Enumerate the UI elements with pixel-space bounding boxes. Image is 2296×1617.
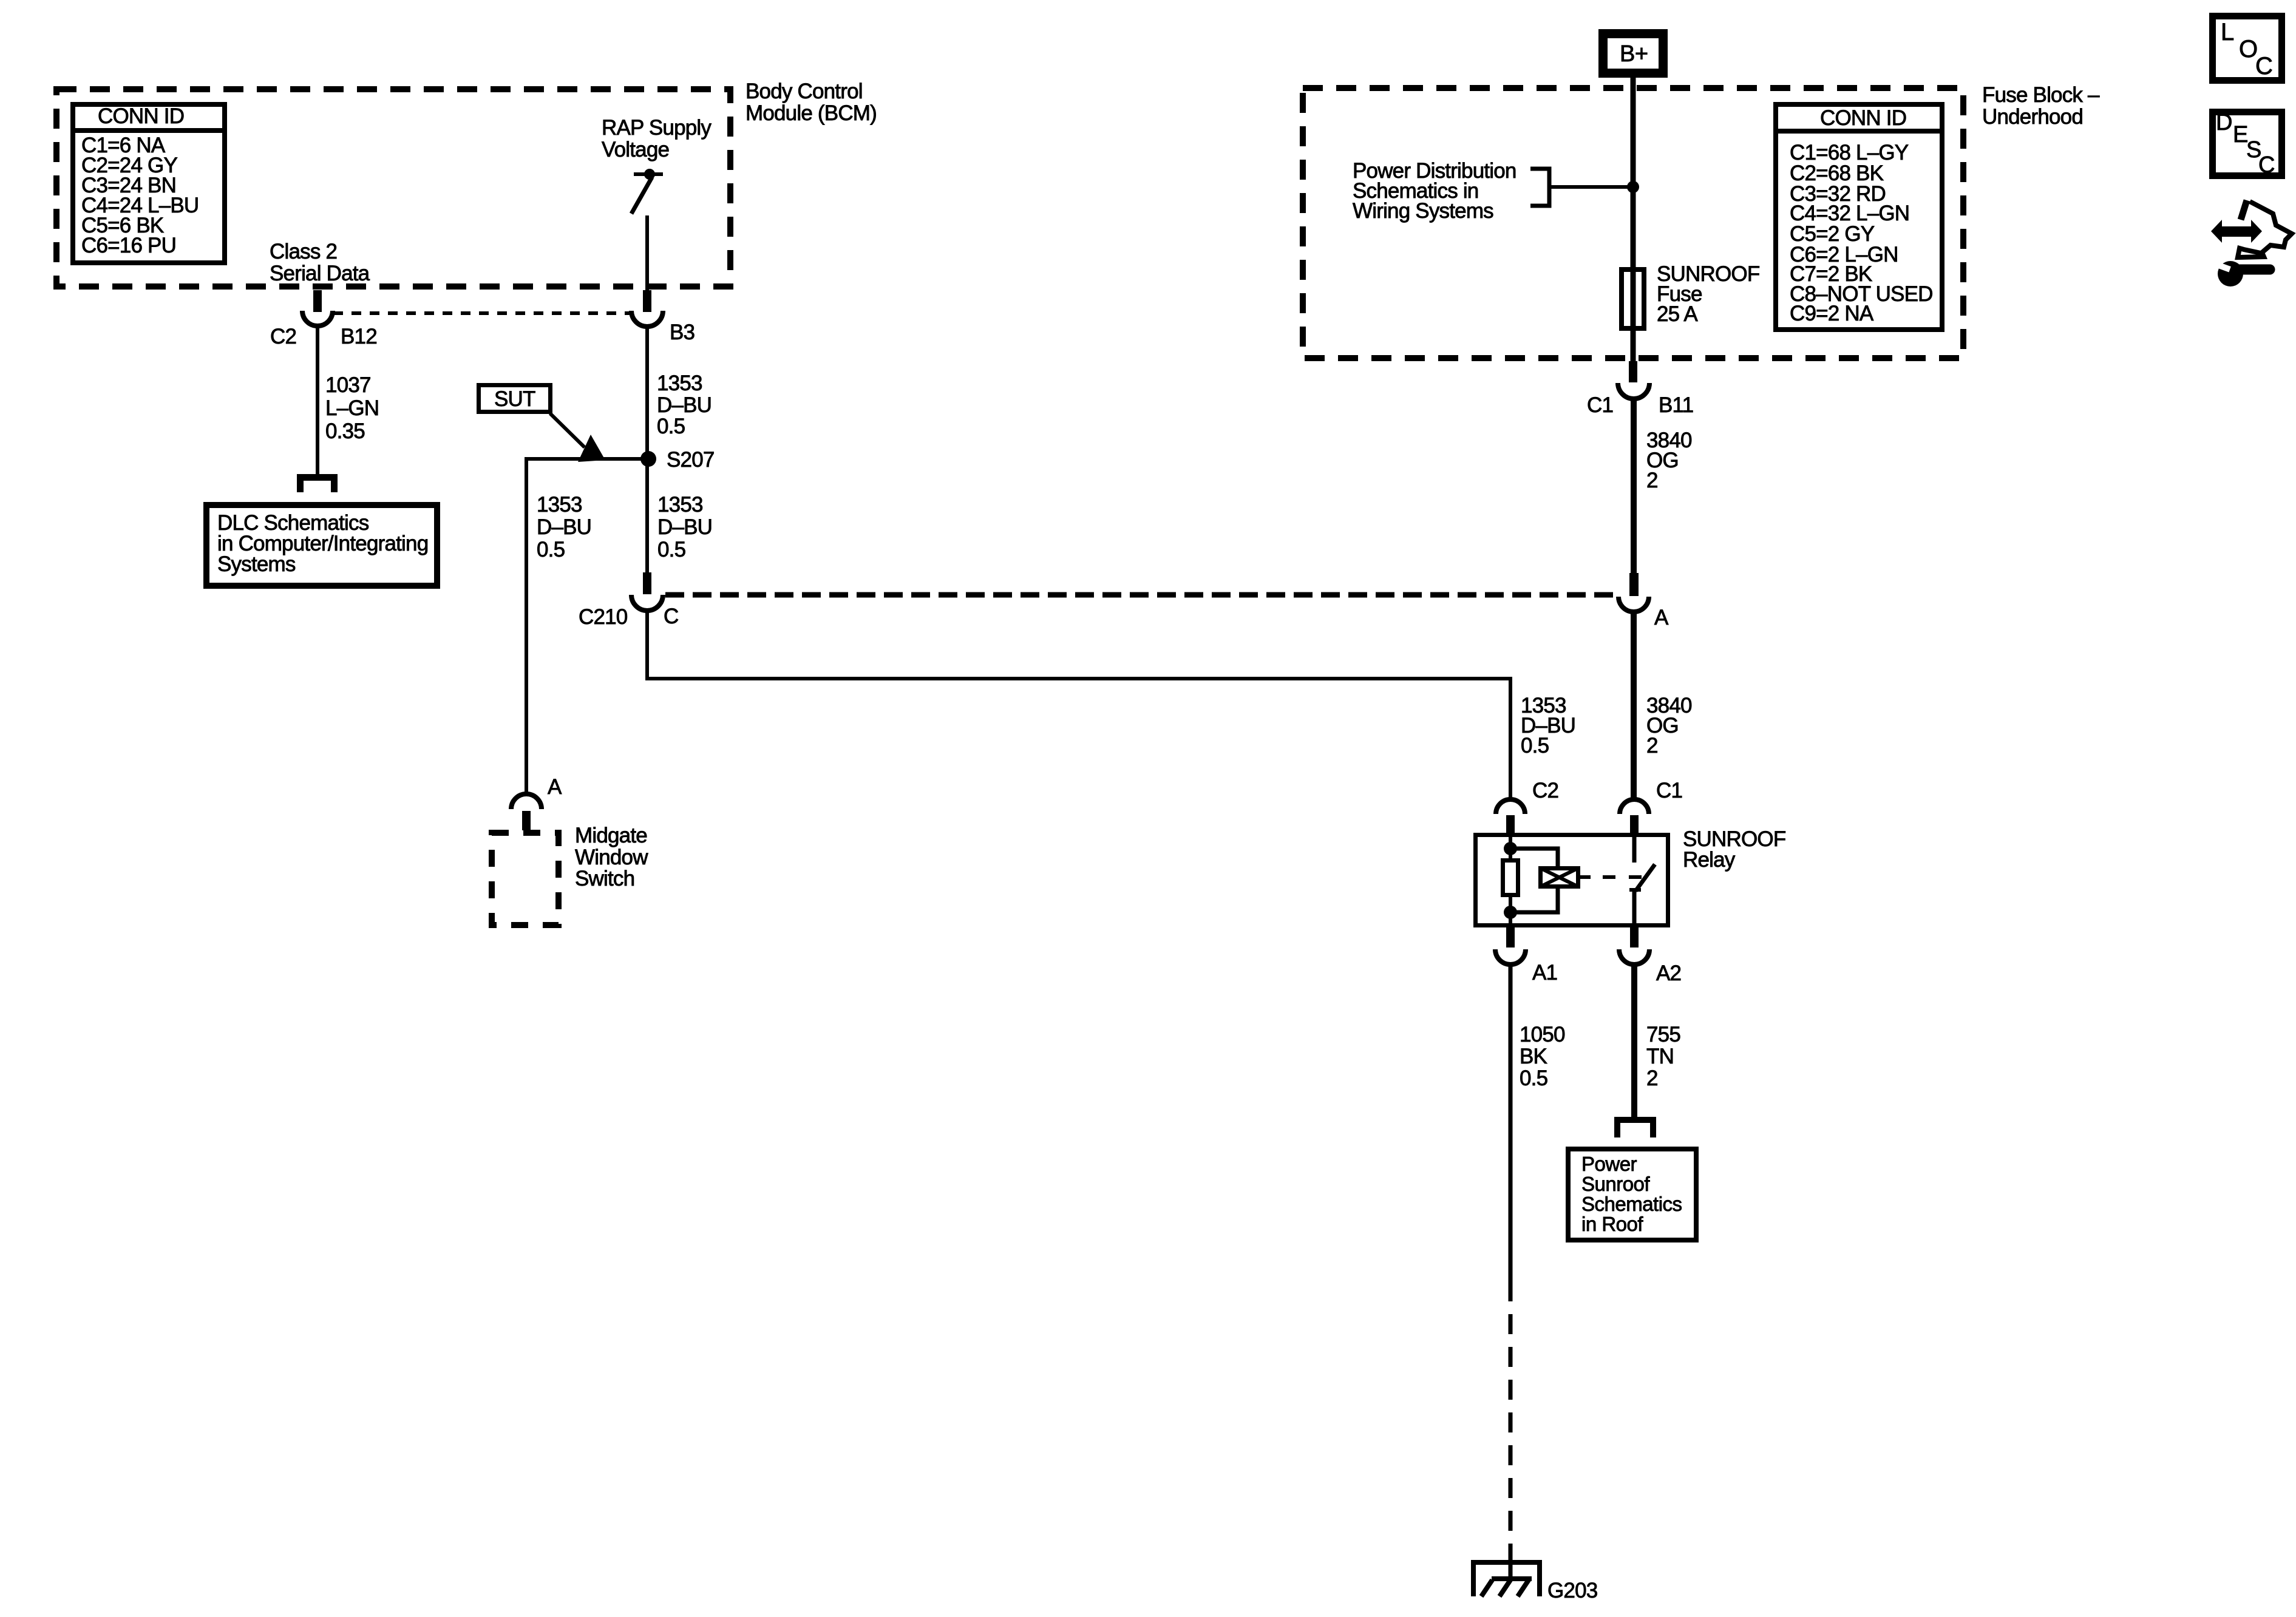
svg-text:1353: 1353 [657, 371, 702, 395]
junction dot coil top [1504, 842, 1517, 855]
svg-text:2: 2 [1646, 469, 1658, 492]
label Power Distribution Schematics in Wiring Systems [1353, 159, 1517, 223]
bracket into DLC box [301, 478, 335, 493]
svg-text:C: C [664, 605, 678, 628]
svg-text:G203: G203 [1547, 1579, 1597, 1602]
svg-text:SUT: SUT [494, 387, 535, 411]
svg-text:Body Control: Body Control [746, 80, 863, 103]
connector C210 pin C [631, 572, 663, 611]
BCM label [746, 80, 877, 125]
svg-text:in Roof: in Roof [1581, 1213, 1643, 1235]
svg-text:B3: B3 [670, 320, 695, 344]
svg-text:Underhood: Underhood [1982, 105, 2083, 129]
svg-text:B+: B+ [1620, 41, 1648, 67]
wire C210 down and across to relay C2 [645, 609, 1512, 799]
wire label 1353 D-BU 0.5 (right of S207) [657, 493, 712, 561]
svg-text:C: C [2255, 53, 2273, 80]
wire label 3840 OG 2 [1646, 429, 1692, 492]
svg-text:1353: 1353 [657, 493, 703, 517]
connector A (inline, right) [1618, 573, 1649, 612]
svg-text:S207: S207 [667, 448, 715, 472]
ground G203 [1473, 1562, 1540, 1596]
connector A2 relay pin [1619, 926, 1649, 964]
svg-text:C2: C2 [1532, 779, 1558, 802]
wire label 1050 BK 0.5 [1520, 1023, 1565, 1090]
svg-text:B11: B11 [1659, 393, 1693, 417]
svg-text:2: 2 [1646, 734, 1658, 758]
svg-text:Schematics: Schematics [1581, 1193, 1682, 1215]
svg-text:BK: BK [1520, 1045, 1547, 1068]
svg-text:Wiring Systems: Wiring Systems [1353, 199, 1493, 223]
connector C2 relay pin [1496, 799, 1525, 833]
module box BCM (dashed) [56, 89, 730, 286]
svg-text:A2: A2 [1656, 961, 1681, 985]
svg-text:B12: B12 [341, 325, 377, 348]
svg-text:RAP Supply: RAP Supply [602, 116, 712, 140]
connector A1 relay pin [1495, 926, 1526, 964]
svg-text:Systems: Systems [217, 552, 296, 576]
svg-text:Serial Data: Serial Data [270, 262, 370, 285]
svg-text:A1: A1 [1532, 961, 1557, 985]
label Midgate Window Switch [575, 824, 648, 890]
wire label 1353 D-BU 0.5 (above S207) [657, 371, 712, 438]
svg-text:25 A: 25 A [1657, 302, 1698, 326]
svg-text:C2: C2 [270, 325, 296, 348]
callout box SUT [479, 385, 551, 412]
node RAP Supply Voltage label [602, 116, 712, 161]
svg-text:Sunroof: Sunroof [1581, 1173, 1650, 1195]
relay SUNROOF box [1476, 835, 1668, 926]
wire B3 to S207 (1353 D-BU 0.5) [645, 325, 649, 572]
svg-text:C210: C210 [579, 605, 628, 629]
fuse block underhood (dashed box) [1303, 88, 1963, 358]
relay switch contact [1629, 833, 1655, 926]
svg-text:Fuse Block –: Fuse Block – [1982, 83, 2100, 107]
solenoid coil symbol (box with X) [1540, 868, 1591, 887]
wire label 755 TN 2 [1646, 1023, 1680, 1090]
icon LOC box [2213, 16, 2282, 81]
svg-text:L–GN: L–GN [325, 396, 379, 420]
svg-text:D–BU: D–BU [657, 393, 712, 417]
svg-text:Module (BCM): Module (BCM) [746, 101, 877, 125]
wire dashed pass-through C210 to A [665, 592, 1617, 598]
svg-text:CONN ID: CONN ID [1820, 106, 1906, 130]
svg-text:1353: 1353 [537, 493, 582, 517]
switch RAP supply (internal BCM output) [631, 169, 663, 214]
wire B+ feed down through fuse [1631, 77, 1636, 361]
svg-text:D: D [2216, 110, 2232, 135]
wire RAP switch to B3 [645, 215, 649, 290]
svg-text:Relay: Relay [1683, 848, 1736, 872]
svg-text:C: C [2258, 152, 2275, 178]
svg-text:D–BU: D–BU [537, 515, 591, 539]
connector C1/B11 pin [1618, 361, 1649, 399]
component Midgate Window Switch (dashed box) [492, 833, 559, 925]
label SUNROOF Relay [1683, 827, 1785, 872]
svg-text:L: L [2221, 19, 2234, 46]
splice S207 [640, 451, 656, 467]
wire A2 to power sunroof [1631, 964, 1637, 1120]
relay coil branch wires [1510, 833, 1558, 926]
wire dashed harness line C2 to B3 [333, 311, 631, 315]
wire tap to power distribution bracket [1550, 185, 1633, 189]
connector B3 pin [631, 290, 663, 327]
svg-text:2: 2 [1646, 1066, 1658, 1090]
svg-text:CONN ID: CONN ID [98, 104, 184, 128]
svg-text:Voltage: Voltage [602, 138, 669, 161]
svg-text:1037: 1037 [325, 373, 371, 397]
bracket power distribution [1530, 169, 1549, 206]
svg-text:Class 2: Class 2 [270, 240, 337, 263]
connector table CONN ID (fuse block) [1773, 104, 1944, 330]
svg-text:0.5: 0.5 [657, 538, 685, 561]
connector table CONN ID (BCM) [70, 104, 227, 263]
wire 3840 OG 2 (B11 to A) [1631, 398, 1637, 573]
resistor (relay coil suppression) [1503, 861, 1518, 895]
wire 1037 L-GN 0.35 [316, 325, 319, 475]
callout arrow to S207 [550, 413, 605, 462]
svg-text:D–BU: D–BU [657, 515, 712, 539]
wire label 1353 D-BU 0.5 (left branch) [537, 493, 591, 561]
icon DESC box [2213, 110, 2282, 178]
box DLC Schematics [206, 505, 437, 586]
svg-text:1050: 1050 [1520, 1023, 1565, 1046]
svg-text:Midgate: Midgate [575, 824, 647, 847]
svg-text:0.35: 0.35 [325, 419, 365, 443]
wire label 1353 D-BU 0.5 (to relay C2) [1521, 694, 1575, 758]
svg-text:0.5: 0.5 [657, 415, 685, 438]
svg-text:C9=2 NA: C9=2 NA [1790, 302, 1874, 325]
wire label 3840 OG 2 (to relay C1) [1646, 694, 1692, 758]
linkage dashes [1603, 875, 1642, 879]
svg-text:Power: Power [1581, 1153, 1637, 1175]
wire branch S207 to midgate switch [525, 457, 648, 794]
svg-text:755: 755 [1646, 1023, 1680, 1046]
svg-text:C1: C1 [1656, 779, 1682, 802]
box Power Sunroof Schematics in Roof [1568, 1149, 1696, 1240]
bracket into power sunroof box [1617, 1120, 1653, 1137]
svg-text:Window: Window [575, 846, 648, 869]
svg-text:A: A [548, 775, 562, 799]
label Fuse Block Underhood [1982, 83, 2100, 129]
svg-text:0.5: 0.5 [537, 538, 565, 561]
svg-text:C6=16 PU: C6=16 PU [81, 234, 176, 257]
svg-text:Switch: Switch [575, 867, 634, 890]
node Class 2 Serial Data label [270, 240, 370, 285]
junction dot power distribution tap [1627, 181, 1639, 193]
wire label 1037 L-GN 0.35 [325, 373, 379, 443]
wire A to relay C1 [1631, 611, 1637, 799]
svg-text:A: A [1654, 606, 1669, 629]
svg-text:0.5: 0.5 [1520, 1066, 1547, 1090]
svg-text:C1: C1 [1587, 393, 1613, 417]
fuse SUNROOF 25A [1622, 269, 1644, 328]
fuse label SUNROOF Fuse 25 A [1657, 262, 1759, 326]
icon wiring pigtail with arrow and wrench [2211, 200, 2292, 286]
svg-text:0.5: 0.5 [1521, 734, 1549, 758]
svg-text:TN: TN [1646, 1045, 1674, 1068]
connector C1 relay pin [1620, 799, 1649, 833]
wire A1 to G203 (solid then dashed) [1509, 964, 1513, 1579]
power feed B+ [1603, 34, 1663, 73]
connector A midgate window switch [511, 794, 542, 830]
connector C2/B12 pin [302, 290, 333, 326]
junction dot coil bottom [1504, 906, 1517, 919]
